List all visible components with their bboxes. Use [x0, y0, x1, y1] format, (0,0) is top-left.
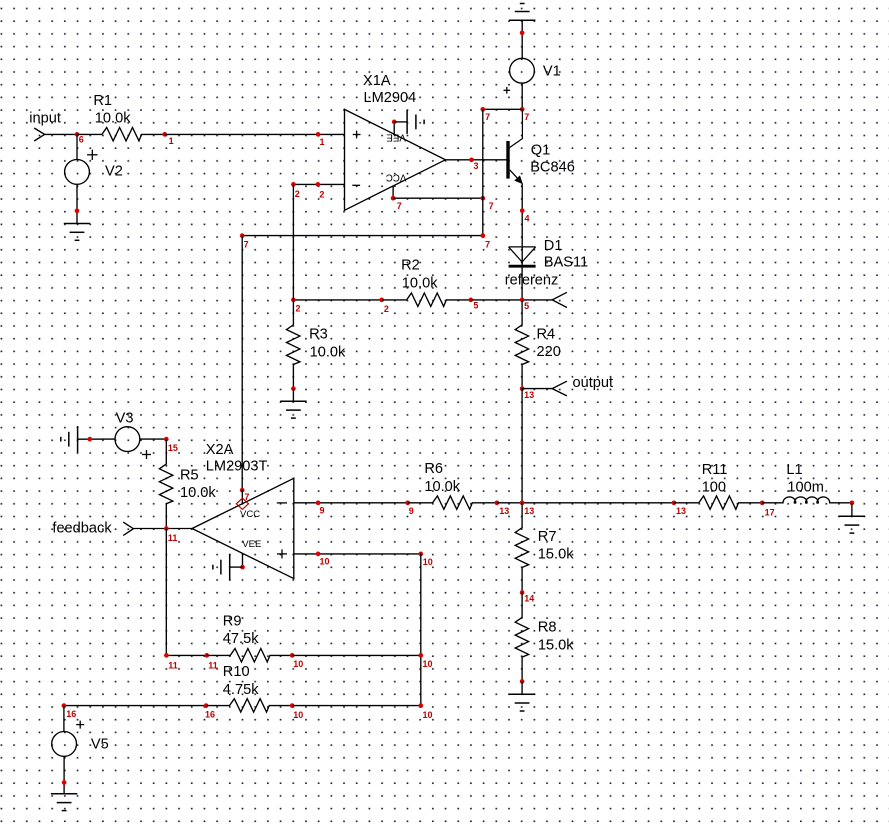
node 5 — [468, 298, 473, 303]
wire node11 vertical — [165, 529, 167, 656]
node 17 — [760, 500, 765, 505]
svg-text:47.5k: 47.5k — [223, 631, 259, 647]
voltage source V2 — [65, 160, 90, 185]
node 7 above X2A — [240, 488, 245, 493]
wire node2 vertical — [292, 184, 294, 300]
ground right of L1 — [839, 516, 865, 533]
wire node7 vertical to X2A VCC — [241, 236, 243, 491]
svg-text:7: 7 — [244, 240, 249, 250]
svg-text:16: 16 — [205, 710, 215, 720]
V1 plus sign — [504, 87, 511, 94]
V2 plus sign — [87, 150, 97, 160]
svg-text:5: 5 — [473, 301, 478, 311]
node 11 corner — [164, 653, 169, 658]
node 4 — [520, 208, 525, 213]
X2A VCC pin diamond — [236, 498, 248, 509]
X2A - input sign — [277, 502, 287, 504]
node 10 corner — [418, 552, 423, 557]
port input arrow — [34, 128, 44, 141]
diode D1 BAS11 — [509, 247, 536, 266]
node R3 bottom — [291, 386, 296, 391]
node 6 junction — [75, 132, 80, 137]
wire V5 to ground — [63, 756, 65, 794]
svg-text:Q1: Q1 — [531, 142, 550, 158]
X1A + input sign — [353, 131, 361, 139]
wire D1 cathode down — [521, 266, 523, 300]
svg-text:15: 15 — [168, 443, 178, 453]
svg-text:output: output — [573, 375, 614, 391]
resistor R11 — [674, 496, 762, 509]
svg-text:7: 7 — [485, 240, 490, 250]
node 1 on wire — [316, 132, 321, 137]
svg-text:L1: L1 — [786, 462, 802, 478]
svg-text:R3: R3 — [309, 327, 328, 343]
node 13 at R6 — [495, 500, 500, 505]
wire V2 to ground — [76, 184, 78, 223]
svg-text:R1: R1 — [93, 93, 112, 109]
node R8 bottom — [520, 679, 525, 684]
ground left of V3 — [61, 426, 78, 452]
svg-text:D1: D1 — [544, 238, 563, 254]
svg-text:VCC: VCC — [240, 509, 260, 520]
V3 plus sign — [142, 450, 151, 459]
resistor R1 — [77, 127, 165, 140]
wire node2 to X1A - input — [293, 183, 344, 185]
wire node11 to R9 — [166, 654, 206, 656]
svg-text:11: 11 — [208, 661, 218, 671]
svg-text:R11: R11 — [702, 462, 728, 478]
svg-text:9: 9 — [409, 506, 414, 516]
svg-text:R8: R8 — [538, 620, 557, 636]
svg-text:15.0k: 15.0k — [538, 637, 574, 653]
wire node13 to output port — [522, 388, 552, 390]
wire node2 to R2 — [293, 299, 381, 301]
wire R10 to node10 vertical — [292, 705, 421, 707]
svg-text:15.0k: 15.0k — [538, 546, 574, 562]
wire feedback to X2A output — [133, 528, 192, 530]
svg-text:10: 10 — [423, 557, 433, 567]
node 10 — [316, 552, 321, 557]
svg-text:7: 7 — [524, 112, 529, 122]
resistor R3 — [287, 300, 300, 389]
svg-text:2: 2 — [296, 304, 301, 314]
svg-text:14: 14 — [524, 594, 534, 604]
svg-text:7: 7 — [489, 201, 494, 211]
svg-text:4: 4 — [525, 214, 530, 224]
svg-text:feedback: feedback — [52, 520, 112, 536]
svg-text:V5: V5 — [91, 736, 109, 752]
node 3 — [469, 157, 474, 162]
wire ground to V3 — [78, 438, 115, 440]
ground right of X1A VEE — [407, 110, 424, 134]
ground below V2 — [64, 224, 90, 241]
node 2 corner — [291, 182, 296, 187]
wire node7 horizontal long — [242, 235, 483, 237]
port feedback arrow — [123, 522, 133, 535]
svg-text:R7: R7 — [538, 529, 557, 545]
svg-text:R6: R6 — [424, 461, 443, 477]
X1A VCC pin stub — [392, 186, 394, 198]
node 5 junction D1/R4 — [520, 298, 525, 303]
node 7 corner — [480, 107, 485, 112]
wire X2A - input to R6 — [294, 502, 408, 504]
wire node6 down to V2 — [76, 134, 78, 159]
svg-text:V1: V1 — [543, 63, 561, 79]
svg-text:10.0k: 10.0k — [310, 345, 346, 361]
svg-text:VCC: VCC — [386, 172, 407, 183]
svg-text:13: 13 — [524, 506, 534, 516]
resistor R7 — [515, 503, 528, 593]
svg-text:R2: R2 — [401, 258, 420, 274]
transistor Q1 BC846 — [508, 109, 522, 183]
wire VEE pin to ground — [230, 566, 243, 568]
op-amp X1A LM2904 — [345, 109, 446, 210]
wire node5 to referenz port — [471, 299, 552, 301]
wire node7 horizontal — [483, 108, 522, 110]
svg-text:BAS11: BAS11 — [544, 255, 588, 271]
svg-text:BC846: BC846 — [530, 160, 575, 176]
node 11 at R9 — [204, 653, 209, 658]
svg-text:R9: R9 — [223, 614, 242, 630]
svg-text:10: 10 — [293, 710, 303, 720]
wire X1A output to Q1 base — [445, 159, 508, 161]
wire L1 to ground — [851, 503, 853, 517]
node 1 — [162, 132, 167, 137]
svg-text:VEE: VEE — [242, 539, 261, 550]
X2A VCC pin stub — [241, 490, 243, 504]
voltage source V3 — [115, 427, 140, 452]
svg-text:7: 7 — [485, 112, 490, 122]
ground below R8 — [509, 694, 535, 711]
wire V3 to node 15 — [140, 438, 166, 440]
svg-text:4.75k: 4.75k — [223, 682, 259, 698]
node 10 junction — [418, 653, 423, 658]
svg-text:10.0k: 10.0k — [402, 275, 438, 291]
svg-text:2: 2 — [295, 189, 300, 199]
node 16 at R10 — [204, 703, 209, 708]
svg-text:X1A: X1A — [363, 73, 391, 89]
svg-text:13: 13 — [676, 506, 686, 516]
resistor R5 — [159, 439, 172, 528]
wire R8 to ground — [521, 681, 523, 694]
node 9 — [316, 500, 321, 505]
node V1 top — [520, 30, 525, 35]
node 10 at R10 — [290, 703, 295, 708]
node 11 junction — [164, 526, 169, 531]
svg-text:3: 3 — [474, 161, 479, 171]
wire R3 to ground — [292, 389, 294, 402]
svg-text:100: 100 — [702, 480, 726, 496]
wire ground to V1 — [521, 20, 523, 58]
svg-text:13: 13 — [524, 390, 534, 400]
ground below R3 — [280, 401, 306, 418]
wire node13 to R11 — [497, 502, 674, 504]
node V2 minus — [75, 208, 80, 213]
X1A - input sign — [352, 184, 360, 186]
X1A VEE pin stub — [393, 122, 395, 134]
svg-text:6: 6 — [79, 135, 84, 145]
node 7 X1A VCC pin — [391, 196, 396, 201]
svg-text:LM2903T: LM2903T — [206, 459, 268, 475]
svg-text:2: 2 — [384, 304, 389, 314]
svg-text:10.0k: 10.0k — [424, 479, 460, 495]
node 16 corner — [62, 703, 67, 708]
wire node7 VCC to vertical rail — [393, 197, 483, 199]
svg-text:10.0k: 10.0k — [180, 485, 216, 501]
X2A + input sign — [277, 549, 287, 558]
svg-text:100m: 100m — [787, 480, 824, 496]
svg-text:VEE: VEE — [386, 131, 406, 142]
port output arrow — [552, 381, 567, 396]
inductor L1 — [762, 497, 852, 503]
node V5 minus — [62, 780, 67, 785]
svg-text:10: 10 — [320, 557, 330, 567]
node 10 bottom corner — [418, 703, 423, 708]
resistor R6 — [408, 496, 497, 509]
svg-text:input: input — [29, 111, 61, 127]
node 13 at R11 — [672, 500, 677, 505]
resistor R2 — [382, 293, 471, 306]
svg-text:R4: R4 — [537, 326, 556, 342]
wire node10 vertical — [420, 554, 422, 706]
node 14 — [520, 590, 525, 595]
wire vertical rail node 7 — [482, 109, 484, 235]
node 9 at R6 — [405, 500, 410, 505]
svg-text:1: 1 — [169, 136, 174, 146]
node 10 at R9 — [290, 653, 295, 658]
svg-text:10: 10 — [423, 659, 433, 669]
wire node16 to R10 — [64, 705, 206, 707]
port referenz arrow — [552, 292, 567, 307]
svg-text:R5: R5 — [180, 467, 199, 483]
voltage source V1 — [510, 58, 535, 83]
wire Q1 emitter down through D1 — [521, 183, 523, 266]
wire node13 vertical — [521, 389, 523, 503]
wire VEE pin to ground — [394, 121, 407, 123]
wire node1 to X1A + input — [165, 133, 345, 135]
svg-text:17: 17 — [765, 508, 775, 518]
svg-text:16: 16 — [66, 709, 76, 719]
svg-text:7: 7 — [397, 201, 402, 211]
wire — [45, 133, 77, 135]
node V3 minus — [87, 437, 92, 442]
svg-text:2: 2 — [319, 189, 324, 199]
node 7 on rail — [480, 196, 485, 201]
svg-text:10.0k: 10.0k — [95, 111, 131, 127]
node 2 junction R3 — [291, 298, 296, 303]
node 13 at output — [520, 386, 525, 391]
resistor R9 — [207, 649, 292, 662]
wire X2A + input node10 — [294, 553, 421, 555]
svg-text:220: 220 — [537, 344, 561, 360]
wire V1 to node 7 — [521, 83, 523, 109]
V5 plus sign — [76, 721, 84, 729]
node 7 corner left — [240, 233, 245, 238]
ground left of X2A VEE — [213, 554, 230, 580]
ground below V5 — [51, 794, 77, 811]
node 2 on wire — [316, 182, 321, 187]
ground above V1 — [509, 4, 535, 21]
svg-text:referenz: referenz — [505, 272, 559, 288]
op-amp X2A LM2903T — [192, 478, 294, 578]
svg-text:LM2904: LM2904 — [364, 90, 417, 106]
svg-text:X2A: X2A — [206, 442, 234, 458]
svg-text:10: 10 — [423, 710, 433, 720]
svg-text:1: 1 — [320, 137, 325, 147]
svg-text:10: 10 — [293, 659, 303, 669]
svg-text:11: 11 — [168, 661, 178, 671]
node 13 junction R7 — [520, 500, 525, 505]
node X1A VEE pin — [392, 120, 397, 125]
svg-text:13: 13 — [499, 506, 509, 516]
node L1 right — [850, 500, 855, 505]
node 15 — [164, 437, 169, 442]
svg-text:11: 11 — [168, 533, 178, 543]
node 7 junction V1/Q1 — [520, 107, 525, 112]
svg-text:V2: V2 — [105, 164, 123, 180]
node 7 rail bottom — [480, 233, 485, 238]
resistor R4 — [515, 300, 528, 389]
svg-text:V3: V3 — [116, 410, 134, 426]
wire R9 to node10 vertical — [292, 654, 421, 656]
resistor R8 — [515, 593, 528, 682]
svg-text:R10: R10 — [223, 664, 250, 680]
node 2 at R2 — [379, 298, 384, 303]
wire node16 down to V5 — [63, 706, 65, 732]
node X2A VEE pin — [240, 565, 245, 570]
resistor R10 — [206, 699, 292, 712]
svg-text:9: 9 — [320, 506, 325, 516]
svg-text:5: 5 — [524, 301, 529, 311]
voltage source V5 — [52, 732, 77, 757]
X2A VEE pin stub — [242, 554, 244, 568]
